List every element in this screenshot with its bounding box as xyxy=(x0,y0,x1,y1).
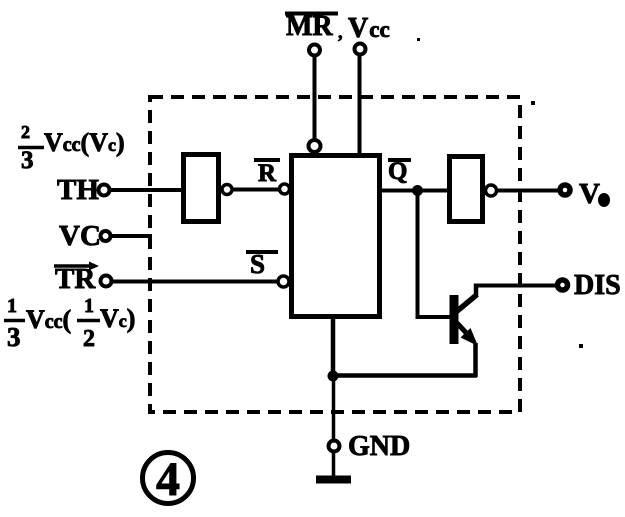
svg-text:Q: Q xyxy=(388,158,407,185)
svg-text:Vc): Vc) xyxy=(100,304,135,333)
svg-text:V: V xyxy=(579,178,600,210)
svg-text:2: 2 xyxy=(21,122,30,142)
svg-text:MR: MR xyxy=(286,11,333,42)
svg-text:GND: GND xyxy=(348,431,410,462)
svg-text:,: , xyxy=(338,22,343,42)
svg-text:VC: VC xyxy=(59,220,101,252)
svg-text:4: 4 xyxy=(156,453,180,506)
svg-text:1: 1 xyxy=(7,295,17,317)
svg-text:1: 1 xyxy=(84,295,94,317)
svg-text:Vcc: Vcc xyxy=(348,13,390,44)
svg-text:2: 2 xyxy=(83,326,95,352)
svg-text:3: 3 xyxy=(21,147,34,174)
svg-text:TH: TH xyxy=(57,174,99,206)
svg-text:3: 3 xyxy=(7,322,21,352)
svg-text:DIS: DIS xyxy=(574,270,621,301)
svg-text:R: R xyxy=(258,160,277,187)
